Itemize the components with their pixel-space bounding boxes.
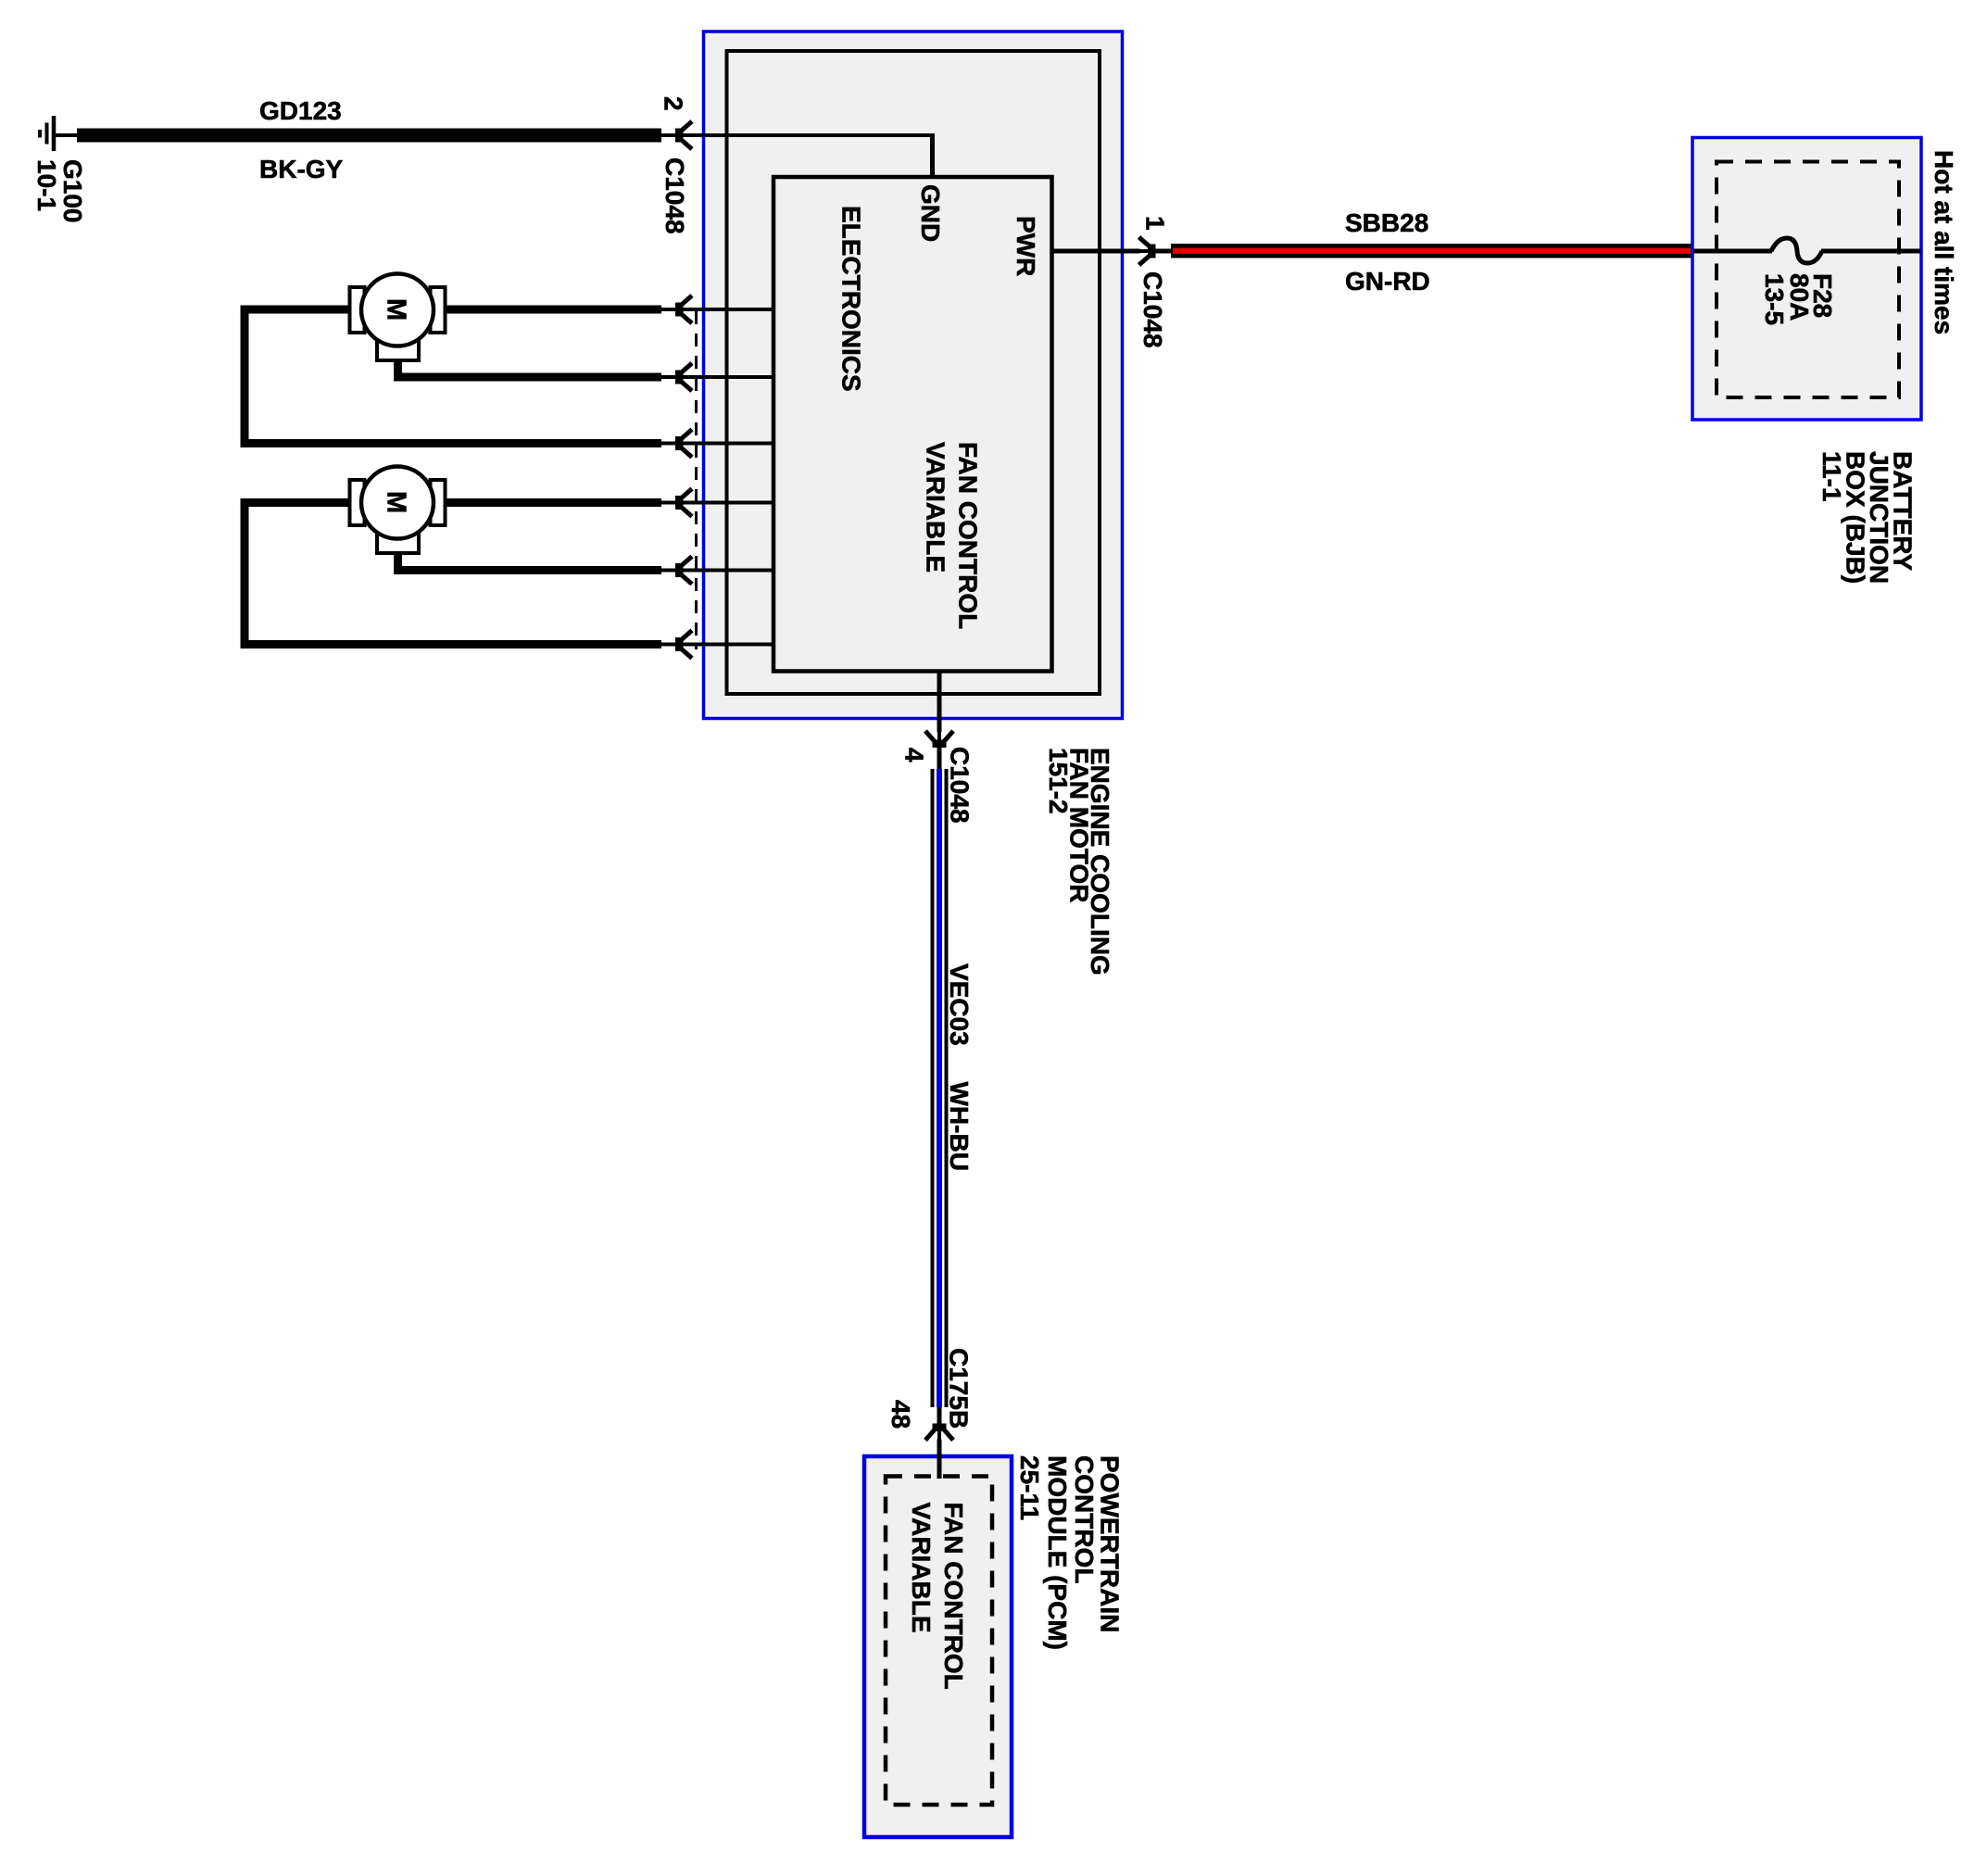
svg-text:4: 4 [900,748,929,762]
label ENGINE COOLING FAN MOTOR 151-2 [1044,748,1114,976]
svg-text:VARIABLE: VARIABLE [922,442,950,573]
svg-text:GND: GND [916,184,945,242]
dashed connector boundary C1048 [695,311,698,649]
svg-text:2: 2 [660,96,688,111]
svg-text:BK-GY: BK-GY [259,155,344,183]
wire PWR internal [1052,249,1172,254]
label C1048 (pin 2) [660,157,689,234]
label GD123 [259,96,342,125]
label G100 10-1 [32,159,87,223]
motor M1 symbol [350,274,446,361]
svg-text:POWERTRAIN: POWERTRAIN [1096,1455,1125,1632]
svg-text:25-11: 25-11 [1015,1455,1044,1520]
wire VEC03 WH-BU (double line) [933,769,947,1407]
label SBB28 [1345,208,1428,237]
svg-text:GD123: GD123 [259,96,342,125]
svg-text:Hot at all times: Hot at all times [1930,150,1958,334]
svg-text:13-5: 13-5 [1760,273,1789,325]
connector C175B pin 48 arrow (pointing up) [925,1409,953,1441]
powertrain control module box (blue) [864,1456,1012,1837]
svg-text:G100: G100 [58,159,87,223]
label pin 1 [1140,216,1169,231]
connector arrow row2 [661,363,693,391]
svg-text:FAN CONTROL: FAN CONTROL [939,1503,968,1690]
svg-text:FAN CONTROL: FAN CONTROL [954,442,983,629]
label ELECTRONICS [837,206,866,392]
connector arrow row5 [661,557,693,585]
label F28 80A 13-5 [1760,273,1837,325]
motor M1 wire left (row3) [241,306,774,448]
fan motor inner box [727,51,1100,694]
label C1048 (pin 4) [946,747,975,824]
svg-text:M: M [382,491,411,513]
connector arrow row4 [661,489,693,517]
engine cooling fan motor assembly box (blue) [704,31,1123,719]
svg-text:48: 48 [887,1400,915,1429]
motor M2 symbol [350,467,446,554]
label C1048 (pin 1) [1138,271,1167,348]
label pin 4 [900,748,929,762]
ground G100 [40,116,78,151]
svg-text:C1048: C1048 [1138,271,1167,348]
svg-text:CONTROL: CONTROL [1070,1455,1099,1583]
svg-text:VARIABLE: VARIABLE [907,1503,936,1633]
label GND (electronics pin) [916,184,945,242]
label VEC03 [945,963,974,1046]
label VARIABLE FAN CONTROL [922,442,983,629]
label C175B [945,1348,974,1429]
svg-text:VEC03: VEC03 [945,963,974,1046]
svg-text:C175B: C175B [945,1348,974,1429]
fuse F28 80A [1771,238,1822,263]
label pin 2 [660,96,688,111]
svg-text:MODULE (PCM): MODULE (PCM) [1043,1455,1072,1650]
svg-text:M: M [382,298,411,321]
motor M1 wire right (row1) [441,306,773,314]
svg-text:11-1: 11-1 [1817,451,1846,502]
battery junction box (blue) [1692,138,1921,421]
label POWERTRAIN CONTROL MODULE (PCM) 25-11 [1015,1455,1125,1650]
connector arrow row6 [661,631,693,659]
svg-text:GN-RD: GN-RD [1345,267,1430,296]
variable fan control electronics box [773,177,1052,672]
connector arrow row3 [661,430,693,458]
wire SBB28 GN-RD (power feed) [1171,244,1693,258]
label WH-BU [945,1082,974,1171]
svg-text:C1048: C1048 [946,747,975,824]
svg-text:ELECTRONICS: ELECTRONICS [837,206,866,392]
svg-text:C1048: C1048 [660,157,689,234]
battery junction box dashed boundary [1717,162,1899,398]
label pin 48 [887,1400,915,1429]
svg-text:151-2: 151-2 [1044,748,1073,814]
wire pigtail row0 (GND into module) [661,133,933,177]
connector C1048 pin 1 arrow (pointing right) [1139,237,1171,265]
connector arrow row1 [661,296,693,323]
wire GD123 BK-GY (ground wire) [77,129,661,143]
svg-text:1: 1 [1140,216,1169,231]
wire inside BJB [1693,249,1920,254]
motor M2 wire right (row4) [441,498,773,507]
motor M2 wire left (row6) [241,498,774,648]
wire pin 4 (fan control) [937,672,942,770]
label VARIABLE FAN CONTROL (PCM) [907,1503,968,1690]
wire into PCM [937,1407,942,1479]
connector C1048 pin 4 arrow (pointing down) [925,731,953,762]
connector C1048 pin 2 arrow [661,121,693,149]
svg-text:WH-BU: WH-BU [945,1082,974,1171]
svg-text:SBB28: SBB28 [1345,208,1428,237]
svg-text:10-1: 10-1 [32,159,61,211]
label BK-GY [259,155,344,183]
label PWR (electronics pin) [1012,216,1040,276]
PCM dashed boundary [886,1477,992,1806]
label GN-RD [1345,267,1430,296]
svg-text:PWR: PWR [1012,216,1040,276]
motor M2 wire bottom (row5) [394,549,773,574]
label BATTERY JUNCTION BOX (BJB) 11-1 [1817,451,1918,584]
motor M1 wire bottom (row2) [394,357,773,382]
label Hot at all times [1930,150,1958,334]
